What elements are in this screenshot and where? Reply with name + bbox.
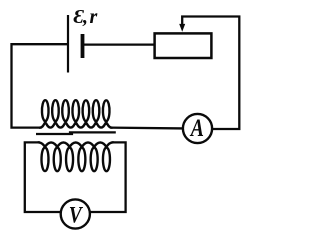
wire: primary coil to ammeter [111,126,182,129]
svg-text:r: r [90,6,98,28]
svg-text:,: , [82,6,88,28]
wire: battery to rheostat [85,43,154,45]
inductor L2 (secondary coil) [39,142,113,171]
ammeter A (circle) [183,114,212,143]
inductor L1 (primary coil) [40,100,111,127]
resistor R (rheostat box) [155,33,212,58]
svg-text:A: A [189,115,204,142]
arrowhead on rheostat slider [179,24,185,32]
wire: rheostat slider to top right corner, down right side to ammeter [182,17,239,130]
iron core (right bar) [70,131,115,133]
voltmeter V (circle) [61,199,90,228]
wire: secondary loop left side [25,142,61,212]
iron core (left bar) [37,133,72,135]
battery long plate (positive) [67,15,69,73]
wire: secondary loop right side [90,142,126,212]
wire: left side of primary loop [12,44,68,127]
svg-text:V: V [69,202,83,227]
battery short plate (negative) [81,34,85,58]
